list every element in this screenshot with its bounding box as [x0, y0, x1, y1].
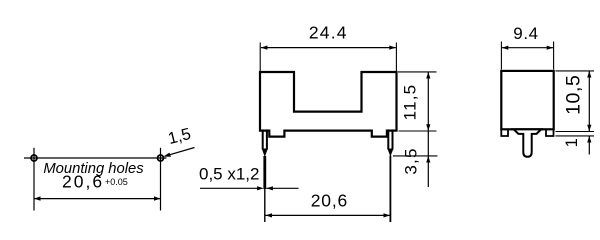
- label Mounting holes: [43, 161, 144, 177]
- label 9.4: [513, 24, 538, 43]
- svg-text:0,5 x1,2: 0,5 x1,2: [199, 165, 260, 184]
- mounting hole left circle: [31, 155, 37, 161]
- label 20,6 +0.05: [62, 172, 128, 192]
- svg-text:20,6: 20,6: [62, 172, 104, 192]
- dimension 9.4 line: [502, 46, 553, 50]
- dimension 1 arrow: [587, 136, 591, 155]
- dimension 11,5 extension lines: [398, 72, 437, 131]
- left view: hole centerline connecting holes: [24, 157, 167, 159]
- label 11,5: [401, 84, 420, 121]
- svg-text:24.4: 24.4: [309, 23, 348, 43]
- front view right pin: [387, 129, 393, 222]
- side view body outline: [501, 71, 553, 129]
- dimension 3,5 extension line at pin tip: [393, 155, 438, 157]
- svg-text:10,5: 10,5: [563, 75, 585, 115]
- svg-text:11,5: 11,5: [401, 84, 420, 121]
- svg-text:20,6: 20,6: [311, 191, 348, 211]
- svg-text:+0.05: +0.05: [105, 177, 128, 187]
- label 3,5: [402, 147, 421, 174]
- dimension 9.4 extension lines: [501, 42, 553, 70]
- side view pin: [511, 129, 543, 157]
- dimension 20,6 +0.05 line between mounting holes: [34, 196, 161, 200]
- label 1,5: [166, 125, 193, 148]
- side view left foot: [501, 129, 508, 136]
- mounting hole left crosshair vertical / extension line: [33, 148, 35, 211]
- label 24.4: [309, 23, 348, 43]
- front view body outline: [260, 72, 397, 137]
- leader arrows for pin cross-section 0,5 x1,2: [200, 186, 299, 190]
- side view right foot: [546, 129, 554, 136]
- dimension 10,5 extension lines: [556, 71, 595, 132]
- leader for hole diameter 1,5: [163, 148, 194, 157]
- label 20,6: [311, 191, 348, 211]
- dimension 24.4 line: [261, 46, 396, 50]
- label 10,5: [563, 75, 585, 115]
- dimension 1 extension line at foot bottom: [556, 135, 595, 137]
- mounting hole right crosshair vertical / extension line: [160, 148, 162, 211]
- svg-text:1,5: 1,5: [166, 125, 193, 148]
- mounting hole right circle: [158, 155, 164, 161]
- dimension 11,5 line: [426, 72, 430, 131]
- svg-text:1: 1: [563, 138, 581, 147]
- svg-text:9.4: 9.4: [513, 24, 538, 43]
- label 1: [563, 138, 581, 147]
- label 0,5 x1,2: [199, 165, 260, 184]
- svg-text:3,5: 3,5: [402, 147, 421, 174]
- dimension 10,5 line: [587, 71, 591, 131]
- dimension 20,6 line under front view: [266, 213, 391, 217]
- dimension 24.4 extension lines: [260, 43, 396, 72]
- front view left pin: [262, 129, 268, 222]
- dimension 3,5 line: [426, 131, 430, 187]
